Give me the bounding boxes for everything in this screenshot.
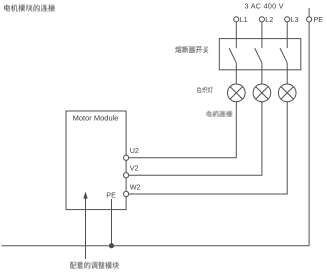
label: 白炽灯 (incandescent lamps) xyxy=(197,87,213,93)
svg-text:U2: U2 xyxy=(130,146,139,155)
svg-text:W2: W2 xyxy=(130,182,141,191)
switch pole 1 blade xyxy=(229,48,236,63)
wire: L2 terminal to switch top contact xyxy=(261,22,263,48)
svg-text:PE: PE xyxy=(314,15,324,24)
svg-text:L1: L1 xyxy=(240,15,248,24)
terminal L1 xyxy=(234,15,248,24)
svg-text:V2: V2 xyxy=(130,164,139,173)
switch pole 3 blade xyxy=(280,48,287,63)
label: title 电机模块的连接 (motor module connection) xyxy=(4,5,55,12)
svg-text:Motor Module: Motor Module xyxy=(73,113,119,122)
wire: PE earth bus (bottom horizontal) xyxy=(2,245,310,247)
wire: L3 terminal to switch top contact xyxy=(286,22,288,48)
wire: switch pole 1 to lamp 1 xyxy=(235,63,237,84)
terminal PE (top right) xyxy=(307,8,324,24)
fused disconnect switch box (熔断器开关) xyxy=(219,39,300,70)
incandescent lamp 2 xyxy=(253,84,271,102)
junction dot: PE to bus xyxy=(109,243,114,248)
svg-text:L2: L2 xyxy=(265,15,273,24)
wire: lamp 1 down and left to terminal U2 xyxy=(129,102,237,158)
arrowhead into Motor Module xyxy=(83,192,87,199)
wire: Motor Module PE down to earth bus xyxy=(111,199,113,246)
wire: PE terminal down right side xyxy=(308,22,310,246)
wire: L1 terminal to switch top contact xyxy=(235,22,237,48)
wire: lamp 2 down and left to terminal V2 xyxy=(129,102,262,175)
svg-text:PE: PE xyxy=(106,191,116,200)
wire: switch pole 3 to lamp 3 xyxy=(286,63,288,84)
incandescent lamp 1 xyxy=(227,84,245,102)
terminal V2 on Motor Module xyxy=(124,164,139,178)
wire: switch pole 2 to lamp 2 xyxy=(261,63,263,84)
wire: DC-link feed from infeed module (vertical) xyxy=(85,198,87,259)
label: 配套的调整模块 (associated infeed module) xyxy=(70,262,119,269)
svg-text:3 AC 400 V: 3 AC 400 V xyxy=(245,2,284,11)
terminal L2 xyxy=(259,15,273,24)
wire: lamp 3 down and left to terminal W2 xyxy=(129,102,288,194)
Motor Module box xyxy=(66,111,126,210)
label: 电机连接 (motor connection) xyxy=(206,111,232,117)
incandescent lamp 3 xyxy=(278,84,296,102)
svg-text:L3: L3 xyxy=(291,15,299,24)
terminal L3 xyxy=(285,15,299,24)
label: 熔断器开关 (fused switch) xyxy=(175,46,208,53)
terminal W2 on Motor Module xyxy=(124,182,141,196)
terminal U2 on Motor Module xyxy=(124,146,139,160)
switch pole 2 blade xyxy=(255,48,262,63)
